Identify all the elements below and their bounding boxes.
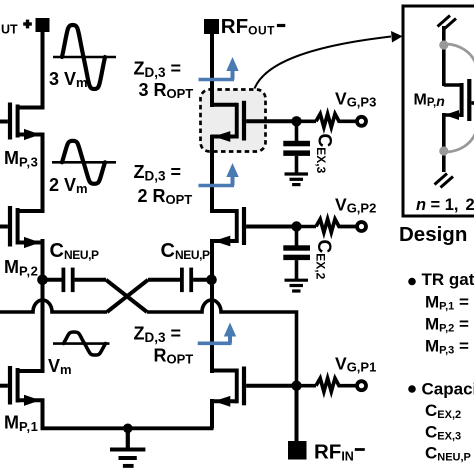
wire node to resistor RG,P2 [297, 225, 317, 229]
capacitor CNEU,P right [148, 268, 212, 293]
node ground junction [123, 424, 133, 434]
terminal RFIN square [288, 441, 307, 460]
break marks bottom [435, 174, 454, 188]
svg-text:RFIN: RFIN [314, 441, 354, 464]
svg-text:ROPT: ROPT [154, 346, 194, 367]
transistor MP,1 right [211, 367, 295, 407]
capacitor CNEU,P left [43, 268, 107, 293]
ground main [110, 428, 145, 466]
transistor MP,n [444, 79, 474, 121]
node VG,P1 [291, 381, 301, 391]
sine 3Vm axis [53, 56, 116, 59]
bullet TR gate [408, 278, 416, 286]
wire left branch bottom [41, 399, 45, 428]
ground CEX,3 [285, 174, 309, 185]
ground CEX,2 [285, 280, 309, 291]
transistor MP,2 right [211, 207, 295, 246]
callout arrow curve [255, 37, 392, 89]
gray node bottom [439, 146, 448, 155]
wire node to resistor RG,P1 [297, 384, 317, 388]
svg-text:Design: Design [399, 223, 467, 246]
svg-text:CEX,2: CEX,2 [425, 401, 461, 421]
svg-text:ZD,3 =: ZD,3 = [134, 324, 182, 346]
node left branch [37, 275, 48, 286]
callout arrowhead [391, 31, 403, 43]
sine 2Vm [62, 141, 105, 184]
wire left branch mid1 [41, 133, 45, 212]
svg-text:UT: UT [1, 23, 18, 37]
wire cross diagonal from right cap [107, 280, 148, 312]
wire right branch bottom [210, 399, 214, 428]
terminal VG,P2 [357, 222, 366, 231]
sine 2Vm axis [52, 161, 116, 164]
wire bus right with hump over right branch, down to VG,P1 node [147, 300, 297, 387]
wire right branch top [210, 34, 214, 107]
svg-text:2 ROPT: 2 ROPT [138, 186, 193, 207]
svg-text:CNEU,P: CNEU,P [50, 240, 100, 262]
transistor MP,3 right (in dashed box) [211, 101, 295, 142]
resistor RG,P1 [316, 378, 357, 391]
svg-text:MP,3 =: MP,3 = [425, 336, 469, 356]
terminal RFOUT+ square [36, 18, 50, 32]
wire left branch mid2 [41, 239, 45, 373]
node VG,P2 [291, 221, 301, 231]
sine Vm [64, 332, 106, 355]
resistor RG,P3 [316, 114, 357, 127]
wire cross diagonal from left cap [106, 280, 147, 312]
terminal VG,P3 [357, 117, 366, 126]
dashed highlight box [201, 90, 266, 152]
svg-text:CNEU,P: CNEU,P [425, 444, 471, 464]
terminal RFOUT- square [204, 19, 219, 34]
gray node top [439, 40, 448, 49]
inset wire top [442, 26, 446, 86]
svg-text:MP,3: MP,3 [4, 148, 38, 170]
label CEX,3 (rotated) [314, 134, 335, 174]
wire bus to left edge with hump over left branch [0, 300, 107, 312]
resistor RG,P2 [316, 219, 357, 232]
impedance marker 2 (blue) [199, 163, 239, 186]
svg-text:MP,2 =: MP,2 = [425, 315, 469, 335]
transistor MP,1 left [0, 366, 45, 406]
inset box frame [403, 6, 474, 216]
svg-text:MP,1 =: MP,1 = [425, 293, 469, 313]
wire RFIN down [295, 386, 299, 441]
sine Vm axis [53, 342, 110, 345]
svg-text:ZD,3 =: ZD,3 = [134, 59, 182, 81]
svg-text:VG,P3: VG,P3 [335, 89, 376, 110]
gray arc bottom [448, 132, 474, 152]
wire node to resistor RG,P3 [297, 120, 317, 124]
wire bottom rail [41, 426, 214, 430]
svg-text:3 ROPT: 3 ROPT [139, 80, 194, 101]
capacitor CEX,2 [283, 227, 310, 280]
svg-text:2 Vm: 2 Vm [49, 175, 88, 196]
svg-text:CEX,2: CEX,2 [313, 240, 334, 280]
terminal VG,P1 [357, 381, 366, 390]
wire left branch top [41, 32, 45, 108]
svg-text:Capacito: Capacito [422, 380, 474, 399]
impedance marker 1 (blue) [199, 57, 239, 80]
svg-text:MP,2: MP,2 [4, 257, 38, 279]
transistor MP,2 left [0, 206, 45, 248]
svg-text:n= 1,2: n= 1,2 [416, 196, 474, 214]
gray arc top [448, 44, 474, 64]
wire right branch mid1 [210, 135, 214, 213]
break marks top [438, 16, 457, 30]
sine 3Vm [62, 25, 105, 89]
svg-text:VG,P1: VG,P1 [335, 354, 376, 375]
svg-text:TR gate: TR gate [422, 270, 474, 289]
svg-text:CEX,3: CEX,3 [314, 134, 335, 174]
svg-text:VG,P2: VG,P2 [335, 195, 376, 216]
svg-text:RFOUT: RFOUT [221, 15, 275, 38]
transistor MP,3 left [0, 103, 45, 141]
inset wire bottom [442, 113, 446, 172]
node right branch [206, 275, 217, 286]
svg-text:CEX,3: CEX,3 [425, 423, 461, 443]
svg-text:3 Vm: 3 Vm [49, 69, 88, 90]
svg-text:CNEU,P: CNEU,P [161, 240, 211, 262]
node VG,P3 [291, 116, 301, 126]
capacitor CEX,3 [283, 121, 310, 172]
svg-text:MP,1: MP,1 [4, 413, 38, 435]
svg-text:ZD,3 =: ZD,3 = [134, 162, 182, 184]
svg-text:Vm: Vm [48, 356, 72, 377]
bullet Capacitor [408, 385, 416, 393]
wire right branch mid2 [210, 239, 214, 373]
label CEX,2 (rotated) [313, 240, 334, 280]
impedance marker 3 (blue) [198, 323, 237, 344]
